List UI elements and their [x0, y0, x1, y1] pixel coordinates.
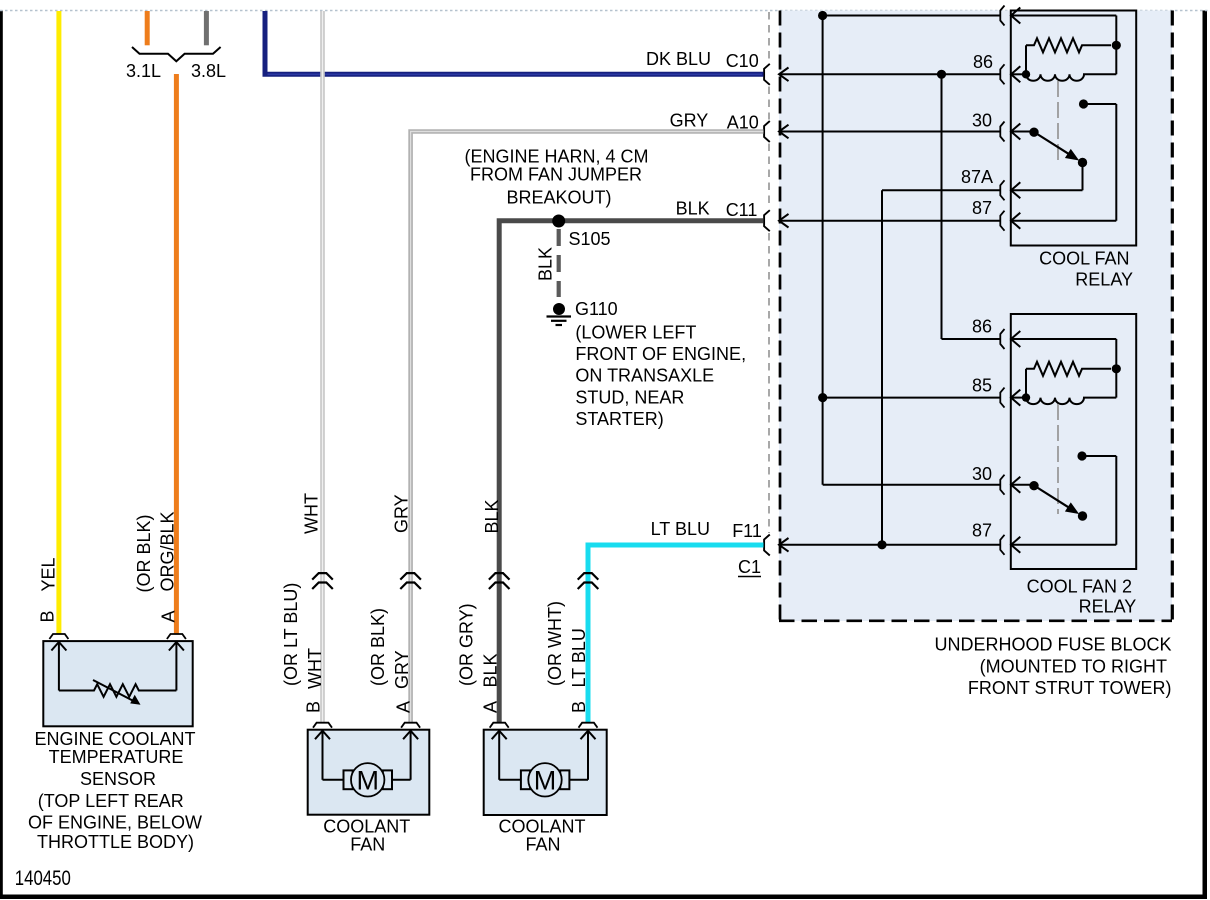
label YEL rotated [38, 557, 58, 591]
label GRY lower rotated [392, 650, 412, 689]
svg-text:COOL FAN 2: COOL FAN 2 [1027, 576, 1132, 596]
label ENGINE HARN note [464, 147, 648, 208]
label C10 [726, 51, 759, 71]
pin label A ECT rotated [159, 610, 179, 622]
label BLK (upper, rotated) [482, 499, 502, 533]
label BLK (ground drop, rotated) [535, 247, 555, 281]
svg-text:M: M [356, 766, 379, 796]
fan2 pin A bump [490, 723, 509, 728]
wire 30 feed relay 1 (from A10) [779, 125, 1001, 139]
node: NO contact dot relay U1 [1079, 99, 1088, 108]
relay U1 switch arm (to 87A) [1034, 132, 1078, 160]
label LT BLU [651, 519, 710, 539]
label C1 (underlined) [738, 557, 761, 577]
svg-text:FRONT OF ENGINE,: FRONT OF ENGINE, [575, 344, 746, 364]
svg-text:3.8L: 3.8L [191, 61, 226, 81]
relay U1 pin 85 arrow and internal line [1011, 8, 1116, 75]
svg-text:85: 85 [972, 376, 992, 396]
relay U1 pin 87A arrow and internal line [1011, 182, 1083, 198]
label 3.8L [191, 61, 226, 81]
inline connector on GRY wire [400, 573, 421, 589]
svg-text:140450: 140450 [15, 867, 71, 890]
svg-text:C10: C10 [726, 51, 759, 71]
coolant fan 1 box [308, 730, 430, 815]
relay U2 pin bump 30 [1000, 475, 1004, 495]
svg-text:F11: F11 [732, 521, 762, 541]
svg-text:YEL: YEL [38, 557, 58, 591]
fan1 motor M1 [323, 763, 411, 796]
label WHT (upper, rotated) [302, 493, 322, 534]
relay U2 pin 86 arrow and internal line [1011, 331, 1116, 398]
svg-text:LT BLU: LT BLU [651, 519, 710, 539]
label G110 [575, 299, 618, 319]
ECT pin A bump [167, 634, 186, 639]
ECT pin B arrow [51, 642, 66, 691]
svg-text:FROM FAN JUMPER: FROM FAN JUMPER [470, 164, 642, 184]
label DK BLU [646, 49, 711, 69]
svg-text:COOLANT: COOLANT [498, 817, 585, 837]
svg-text:A10: A10 [727, 112, 759, 132]
node: junction dot relay1 85 corner [818, 11, 827, 20]
brace joining 3.1L/3.8L branches [132, 47, 221, 61]
node: resistor-coil junction dot relay U2 [1112, 364, 1121, 373]
connector C1 boundary line (dashed with bumps) [768, 12, 770, 533]
svg-text:FRONT STRUT TOWER): FRONT STRUT TOWER) [968, 678, 1172, 698]
wire DK BLU (to C10) [265, 11, 764, 74]
inline connector on WHT wire [312, 573, 333, 589]
svg-text:C1: C1 [738, 557, 761, 577]
connector bump C11 [764, 210, 770, 231]
svg-text:SENSOR: SENSOR [80, 769, 156, 789]
connector bump C10 [764, 64, 770, 85]
relay U2 pin bump 85 [1000, 388, 1004, 408]
svg-text:COOLANT: COOLANT [323, 817, 410, 837]
node: NO contact dot relay U2 [1077, 451, 1086, 460]
label A10 [727, 112, 759, 132]
wire relay1 pin 85 line [823, 15, 1001, 17]
wire: vertical tie 86 bus (x=941.5) [941, 74, 943, 339]
svg-text:ORG/BLK: ORG/BLK [158, 511, 178, 591]
svg-text:RELAY: RELAY [1079, 596, 1137, 616]
relay U1 pin bump 85 [1000, 6, 1004, 26]
node: junction dot on 86 line [937, 70, 946, 79]
coolant fan 2 box [484, 730, 607, 815]
node: switch pivot dot relay U1 [1029, 128, 1038, 137]
svg-text:GRY: GRY [392, 650, 412, 689]
ECT pin A arrow [169, 642, 184, 691]
inline connector on LT BLU wire [578, 573, 599, 589]
svg-text:WHT: WHT [305, 648, 325, 689]
relay U1 pin bump 87 [1000, 211, 1004, 231]
relay U1 pin 30 arrow [1011, 124, 1034, 140]
node: coil start dot relay U2 [1022, 393, 1030, 401]
node: junction dot relay2 85 [818, 393, 827, 402]
relay U2 mechanical link (dashed) [1057, 404, 1059, 514]
node: NC contact dot relay U1 [1078, 158, 1087, 167]
label ORG/BLK rotated [158, 511, 178, 591]
relay U2 pin 87 arrow and internal line [1011, 537, 1116, 553]
wire BLK dashed to ground [557, 229, 561, 297]
relay U2 switch arm [1034, 486, 1078, 514]
fan2 motor M2 [499, 763, 588, 796]
wire 87 relay 1 (to C11) [779, 214, 1001, 228]
wire relay2 pin 86 line [942, 338, 1001, 340]
relay U1 pin bump 87A [1000, 180, 1004, 200]
node: switch pivot dot relay U2 [1029, 481, 1038, 490]
label COOL FAN 2 RELAY [1027, 576, 1137, 616]
svg-text:87: 87 [972, 198, 992, 218]
svg-text:BLK: BLK [482, 499, 502, 533]
wire WHT (coolant fan 1 pin B) [320, 11, 325, 722]
relay U2 pin 85 arrow [1011, 390, 1026, 406]
fan1 pin B arrow [315, 731, 330, 780]
node splice S105 [552, 215, 565, 228]
svg-text:S105: S105 [569, 229, 611, 249]
svg-text:OF ENGINE, BELOW: OF ENGINE, BELOW [28, 813, 202, 833]
connector bump A10 [764, 121, 770, 142]
wire 86 feed inside fuse block (from C10) [779, 68, 1001, 82]
ground G110 [547, 303, 572, 325]
svg-text:(LOWER LEFT: (LOWER LEFT [575, 323, 696, 343]
svg-text:(OR BLK): (OR BLK) [134, 514, 154, 592]
label GRY (upper, rotated) [391, 494, 411, 533]
label 3.1L [126, 61, 161, 81]
fan2 pin B bump [579, 723, 598, 728]
node: junction dot on relay2 87 line [877, 540, 886, 549]
svg-text:30: 30 [972, 111, 992, 131]
label GRY [670, 110, 709, 130]
svg-text:B: B [569, 701, 589, 713]
ECT thermistor element [59, 680, 176, 705]
svg-text:RELAY: RELAY [1075, 270, 1133, 290]
svg-text:(OR WHT): (OR WHT) [545, 601, 565, 686]
label COOLANT FAN 1 [323, 817, 410, 855]
wire ORG 3.1L branch [145, 11, 150, 45]
svg-text:(MOUNTED TO RIGHT: (MOUNTED TO RIGHT [980, 657, 1167, 677]
svg-text:A: A [481, 701, 501, 713]
label S105 [569, 229, 611, 249]
svg-text:COOL FAN: COOL FAN [1039, 249, 1129, 269]
svg-text:B: B [304, 701, 324, 713]
pin label A fan1 rotated [394, 701, 414, 713]
svg-text:30: 30 [972, 464, 992, 484]
pin label 30 relay U1 [972, 111, 992, 131]
svg-text:UNDERHOOD FUSE BLOCK: UNDERHOOD FUSE BLOCK [934, 635, 1171, 655]
pin label 87 relay U1 [972, 198, 992, 218]
label ENGINE COOLANT TEMPERATURE SENSOR [28, 729, 202, 852]
wire: NC contact to 87A line [1082, 163, 1084, 191]
svg-text:BLK: BLK [676, 199, 710, 219]
node: resistor-coil junction dot relay U1 [1112, 41, 1121, 50]
node: coil start dot relay U1 [1022, 70, 1030, 78]
fan2 pin A arrow [492, 731, 507, 780]
relay U2 coil [1026, 398, 1116, 405]
svg-text:86: 86 [972, 317, 992, 337]
label (OR WHT) rotated [545, 601, 565, 686]
pin label B fan2 rotated [569, 701, 589, 713]
svg-text:G110: G110 [575, 299, 618, 319]
pin label B fan1 rotated [304, 701, 324, 713]
wire 87 relay 2 (to F11) [779, 538, 1001, 552]
label (OR GRY) rotated [457, 603, 477, 686]
svg-text:DK BLU: DK BLU [646, 49, 711, 69]
svg-text:(OR LT BLU): (OR LT BLU) [281, 583, 301, 686]
label (OR LT BLU) rotated [281, 583, 301, 686]
svg-text:GRY: GRY [391, 494, 411, 533]
svg-text:BLK: BLK [481, 653, 501, 687]
label C11 [726, 200, 758, 220]
label F11 [732, 521, 762, 541]
relay U1 resistor (parallel with coil) [1026, 38, 1111, 74]
underhood fuse block enclosure (dashed box, light blue fill) [779, 11, 1172, 622]
svg-text:THROTTLE BODY): THROTTLE BODY) [37, 832, 194, 852]
svg-text:(OR GRY): (OR GRY) [457, 603, 477, 686]
label BLK [676, 199, 710, 219]
wire: NO contact to 87 line relay U1 [1084, 104, 1117, 221]
wire relay2 pin 85 line [823, 397, 1001, 399]
pin label 87 relay U2 [972, 521, 992, 541]
relay U1 box (COOL FAN RELAY) [1011, 11, 1136, 246]
relay U1 pin 86 arrow [1011, 66, 1026, 82]
label (OR BLK) fan1 rotated [368, 608, 388, 686]
wire relay1 87A to relay2 87 (vertical x=882) [882, 190, 1001, 545]
svg-text:M: M [534, 766, 557, 796]
fan1 pin A arrow [403, 731, 418, 780]
svg-text:(OR BLK): (OR BLK) [368, 608, 388, 686]
relay U1 mechanical link (dashed) [1057, 81, 1059, 160]
wire GRY (coolant fan 1 pin A, to A10) [411, 132, 764, 723]
label (OR BLK) ECT rotated [134, 514, 154, 592]
label BLK lower rotated [481, 653, 501, 687]
svg-text:B: B [38, 610, 58, 622]
relay U2 box (COOL FAN 2 RELAY) [1011, 314, 1136, 569]
svg-text:86: 86 [973, 52, 993, 72]
label COOL FAN RELAY [1039, 249, 1133, 290]
svg-text:A: A [394, 701, 414, 713]
inline connector on BLK wire [489, 573, 510, 589]
label COOLANT FAN 2 [498, 817, 585, 855]
node: NC contact dot relay U2 (floating) [1078, 511, 1087, 520]
wire ORG/BLK (ECT sensor pin A) [174, 74, 179, 634]
svg-text:(TOP LEFT REAR: (TOP LEFT REAR [38, 791, 184, 811]
pin label A fan2 rotated [481, 701, 501, 713]
relay U1 pin bump 86 [1000, 64, 1004, 84]
svg-text:BLK: BLK [535, 247, 555, 281]
relay U2 pin bump 86 [1000, 329, 1004, 349]
fan1 pin B bump [313, 723, 332, 728]
relay U1 coil [1026, 74, 1116, 81]
wire GRY 3.8L branch [204, 11, 209, 45]
svg-text:ON TRANSAXLE: ON TRANSAXLE [575, 366, 714, 386]
ECT pin B bump [49, 634, 68, 639]
wire LT BLU (coolant fan 2 pin B, to F11) [588, 545, 764, 722]
svg-text:TEMPERATURE: TEMPERATURE [49, 747, 184, 767]
ECT sensor box [43, 641, 192, 726]
svg-text:BREAKOUT): BREAKOUT) [506, 188, 611, 208]
pin label 87A relay U1 [961, 167, 993, 187]
svg-text:WHT: WHT [302, 493, 322, 534]
label UNDERHOOD FUSE BLOCK location [934, 635, 1171, 699]
label WHT lower rotated [305, 648, 325, 689]
relay U1 pin bump 30 [1000, 122, 1004, 142]
relay U2 resistor (parallel with coil) [1026, 362, 1111, 398]
wire YEL (ECT sensor pin B) [56, 11, 61, 634]
svg-text:FAN: FAN [525, 835, 560, 855]
fan2 pin B arrow [581, 731, 596, 780]
wire relay2 pin 30 line [823, 484, 1001, 486]
svg-text:C11: C11 [726, 200, 758, 220]
connector bump F11 [764, 535, 770, 556]
pin label 30 relay U2 [972, 464, 992, 484]
pin label 86 relay U1 [973, 52, 993, 72]
pin label 86 relay U2 [972, 317, 992, 337]
svg-text:87A: 87A [961, 167, 993, 187]
wire: vertical tie 85 bus (x=822.6) [822, 16, 824, 485]
pin label B ECT rotated [38, 610, 58, 622]
label G110 location note [575, 323, 746, 430]
svg-text:STUD, NEAR: STUD, NEAR [575, 387, 684, 407]
fan1 pin A bump [401, 723, 420, 728]
label LT BLU lower rotated [569, 628, 589, 687]
svg-text:LT BLU: LT BLU [569, 628, 589, 687]
svg-text:STARTER): STARTER) [575, 409, 663, 429]
wire BLK (coolant fan 2 pin A, to C11) [499, 221, 763, 722]
svg-text:A: A [159, 610, 179, 622]
pin label 85 relay U2 [972, 376, 992, 396]
svg-text:3.1L: 3.1L [126, 61, 161, 81]
relay U1 pin 87 arrow and internal line [1011, 213, 1116, 229]
label 140450 (diagram number) [15, 867, 71, 890]
relay U2 pin bump 87 [1000, 535, 1004, 555]
svg-text:FAN: FAN [350, 835, 385, 855]
relay U2 pin 30 arrow [1011, 477, 1034, 493]
svg-text:87: 87 [972, 521, 992, 541]
wire: NO contact to 87 line relay U2 [1082, 456, 1116, 545]
svg-text:GRY: GRY [670, 110, 709, 130]
